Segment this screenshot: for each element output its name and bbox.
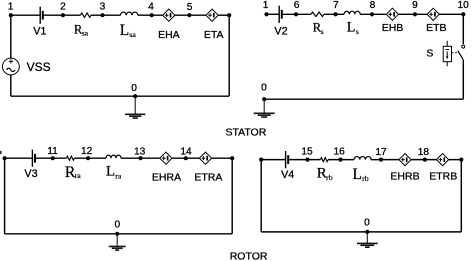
svg-text:6: 6 bbox=[294, 0, 300, 11]
wire Ls to node8/EHB bbox=[360, 13, 386, 15]
resistor Rsa bbox=[81, 13, 92, 17]
svg-text:sa: sa bbox=[82, 28, 89, 37]
wire Lsa to node4/EHA bbox=[138, 14, 163, 16]
inductor Lsa bbox=[121, 12, 138, 15]
node 0 junction dot C1 bbox=[133, 94, 137, 98]
svg-text:L: L bbox=[106, 163, 115, 180]
controlled source EHA bbox=[163, 9, 175, 21]
wire corner to V3 bbox=[5, 157, 33, 159]
svg-text:12: 12 bbox=[81, 146, 93, 157]
node 7 junction dot bbox=[333, 12, 337, 16]
svg-text:VSS: VSS bbox=[27, 60, 51, 74]
node 11 junction dot bbox=[51, 156, 55, 160]
corner junction dot top-right C4 bbox=[459, 158, 463, 162]
wire right side down C4 bbox=[460, 160, 462, 232]
svg-text:V4: V4 bbox=[281, 169, 294, 181]
wire node1 to V1 bbox=[11, 14, 40, 16]
wire bottom rail bbox=[11, 95, 229, 97]
svg-text:7: 7 bbox=[333, 0, 339, 11]
wire bottom rail C4 bbox=[261, 231, 461, 233]
node 0 junction dot C4 bbox=[365, 230, 369, 234]
controlled source ETA bbox=[206, 9, 218, 21]
svg-text:ETRB: ETRB bbox=[429, 171, 457, 183]
svg-text:0: 0 bbox=[131, 83, 137, 94]
wire V2 to node6/Rs bbox=[283, 13, 311, 15]
wire Rrb to node16/Lrb bbox=[328, 159, 354, 161]
svg-text:STATOR: STATOR bbox=[225, 126, 266, 138]
svg-text:EHB: EHB bbox=[382, 22, 404, 34]
battery V1 bbox=[40, 7, 43, 24]
ground C4 bbox=[357, 232, 378, 247]
controlled source ETRB bbox=[437, 154, 449, 166]
controlled source ETRA bbox=[199, 152, 211, 164]
node 18 junction dot bbox=[423, 158, 427, 162]
svg-text:1: 1 bbox=[263, 0, 269, 11]
wire left side C4 bbox=[260, 160, 262, 232]
source VSS bbox=[3, 58, 20, 75]
corner junction dot top-right C1 bbox=[227, 13, 231, 17]
wire left side C3 bbox=[4, 158, 6, 234]
wire Lra to node13/EHRA bbox=[121, 157, 160, 159]
wire ETA to corner bbox=[218, 14, 229, 16]
wire bottom rail C2 bbox=[264, 98, 463, 100]
svg-text:rb: rb bbox=[326, 173, 333, 182]
node 17 junction dot bbox=[379, 158, 383, 162]
wire EHA to node5/ETA bbox=[175, 14, 206, 16]
wire node1 to V2 bbox=[267, 13, 280, 15]
node 1 junction dot bbox=[9, 13, 13, 17]
svg-text:14: 14 bbox=[180, 146, 192, 157]
wire right side down bbox=[228, 15, 230, 96]
ground C3 bbox=[109, 234, 126, 250]
svg-text:sa: sa bbox=[129, 30, 136, 39]
svg-text:ETA: ETA bbox=[204, 29, 224, 41]
wire VSS down to bottom rail bbox=[10, 75, 12, 96]
node 1 junction dot C2 bbox=[264, 12, 268, 16]
controlled source EHRA bbox=[160, 152, 172, 164]
node 0 junction dot C3 bbox=[115, 232, 119, 236]
wire Rra to node12/Lra bbox=[74, 157, 106, 159]
node 5 junction dot bbox=[187, 13, 191, 17]
node 8 junction dot bbox=[370, 12, 374, 16]
battery V2 bbox=[279, 6, 282, 23]
controlled source EHB bbox=[386, 8, 398, 20]
corner junction dot top-left C4 bbox=[259, 158, 263, 162]
svg-text:V1: V1 bbox=[33, 26, 46, 38]
wire node1 down to VSS bbox=[10, 15, 12, 58]
wire V3 to node11/Rra bbox=[36, 157, 66, 159]
wire Lrb to node17/EHRB bbox=[371, 159, 399, 161]
controlled source EHRB bbox=[399, 154, 411, 166]
wire V4 to node15/Rrb bbox=[289, 159, 320, 161]
node 0 junction dot C2 bbox=[262, 97, 266, 101]
svg-text:18: 18 bbox=[418, 147, 430, 158]
svg-text:ra: ra bbox=[75, 171, 82, 180]
svg-text:4: 4 bbox=[148, 2, 154, 13]
svg-text:1: 1 bbox=[8, 1, 14, 12]
svg-text:17: 17 bbox=[375, 147, 387, 158]
battery V4 bbox=[286, 151, 289, 168]
resistor Rs bbox=[311, 12, 324, 16]
svg-text:3: 3 bbox=[100, 1, 106, 12]
svg-text:ra: ra bbox=[115, 171, 122, 180]
resistor Rrb bbox=[320, 158, 328, 162]
scan artifact left edge bbox=[0, 151, 2, 154]
switch S blade bbox=[458, 51, 463, 59]
node 9 junction dot bbox=[413, 12, 417, 16]
svg-text:9: 9 bbox=[412, 0, 418, 11]
wire corner to V4 bbox=[261, 159, 285, 161]
svg-text:10: 10 bbox=[458, 0, 470, 11]
corner junction dot top-left C3 bbox=[3, 156, 7, 160]
svg-text:rb: rb bbox=[362, 174, 369, 183]
svg-text:8: 8 bbox=[370, 0, 376, 11]
inductor Lrb bbox=[354, 157, 371, 160]
switch S contact circle bbox=[462, 45, 465, 48]
node 2 junction dot bbox=[61, 13, 65, 17]
node 12 junction dot bbox=[86, 156, 90, 160]
svg-text:16: 16 bbox=[334, 147, 346, 158]
svg-text:5: 5 bbox=[187, 2, 193, 13]
node 3 junction dot bbox=[100, 13, 104, 17]
svg-text:13: 13 bbox=[134, 146, 146, 157]
ground C1 bbox=[125, 96, 145, 118]
svg-text:ETB: ETB bbox=[426, 22, 446, 34]
node 13 junction dot bbox=[138, 156, 142, 160]
node 6 junction dot bbox=[294, 12, 298, 16]
node 14 junction dot bbox=[184, 156, 188, 160]
wire ETRA to corner bbox=[212, 157, 233, 159]
svg-text:15: 15 bbox=[301, 147, 313, 158]
node 10 junction dot bbox=[461, 12, 465, 16]
svg-text:0: 0 bbox=[261, 83, 267, 94]
svg-text:L: L bbox=[353, 166, 362, 183]
switch S dashed link bbox=[452, 52, 457, 54]
wire bottom rail C3 bbox=[5, 233, 233, 235]
switch S body box bbox=[443, 41, 451, 67]
inductor Lra bbox=[106, 155, 121, 158]
wire right side down C3 bbox=[231, 158, 233, 234]
node 15 junction dot bbox=[305, 158, 309, 162]
svg-text:V2: V2 bbox=[274, 26, 287, 38]
node 4 junction dot bbox=[150, 13, 154, 17]
wire Rs to node7/Ls bbox=[324, 13, 344, 15]
svg-text:EHA: EHA bbox=[158, 29, 180, 41]
svg-text:S: S bbox=[426, 48, 433, 60]
wire node10 down to switch contact bbox=[462, 14, 464, 44]
wire ETB to node10 bbox=[439, 13, 463, 15]
wire EHB to node9/ETB bbox=[399, 13, 428, 15]
wire EHRA to node14/ETRA bbox=[172, 157, 199, 159]
corner junction dot top-right C3 bbox=[230, 156, 234, 160]
svg-text:s: s bbox=[321, 27, 324, 36]
wire Rsa to node3/Lsa bbox=[91, 14, 121, 16]
inductor Ls bbox=[344, 11, 360, 14]
svg-text:L: L bbox=[347, 19, 356, 35]
wire EHRB to node18/ETRB bbox=[411, 159, 436, 161]
svg-text:0: 0 bbox=[114, 219, 120, 230]
wire V1 to node2/Rsa bbox=[44, 14, 81, 16]
resistor Rra bbox=[66, 156, 74, 160]
svg-text:V3: V3 bbox=[24, 168, 37, 180]
wire ETRB to corner bbox=[449, 159, 462, 161]
node 16 junction dot bbox=[338, 158, 342, 162]
svg-text:0: 0 bbox=[364, 218, 370, 229]
svg-text:2: 2 bbox=[60, 1, 66, 12]
svg-text:ROTOR: ROTOR bbox=[230, 251, 268, 261]
svg-text:s: s bbox=[356, 27, 359, 36]
svg-text:ETRA: ETRA bbox=[194, 171, 222, 183]
svg-text:11: 11 bbox=[47, 146, 58, 157]
svg-text:EHRB: EHRB bbox=[390, 171, 419, 183]
battery V3 bbox=[32, 150, 35, 167]
controlled source ETB bbox=[427, 8, 439, 20]
ground C2 bbox=[254, 99, 275, 117]
svg-text:L: L bbox=[120, 22, 129, 39]
svg-text:EHRA: EHRA bbox=[152, 171, 181, 183]
wire switch down to bottom rail bbox=[462, 59, 464, 99]
